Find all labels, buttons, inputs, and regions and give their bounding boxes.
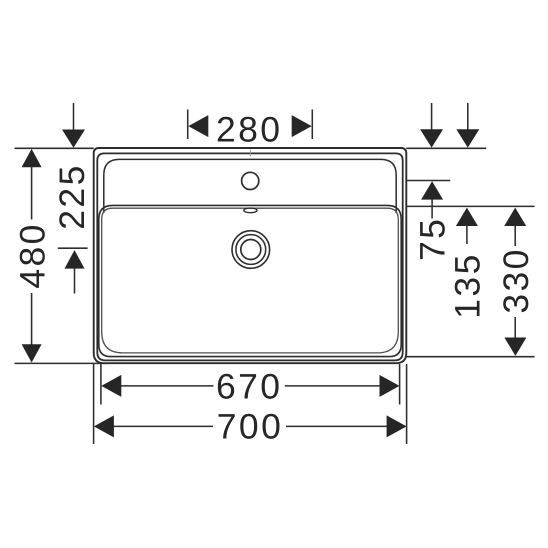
svg-text:135: 135 xyxy=(447,252,487,318)
svg-text:700: 700 xyxy=(217,407,283,447)
svg-text:480: 480 xyxy=(13,222,53,288)
svg-text:280: 280 xyxy=(216,110,282,150)
svg-text:670: 670 xyxy=(216,367,282,407)
svg-text:225: 225 xyxy=(52,163,92,229)
svg-text:330: 330 xyxy=(496,247,536,313)
